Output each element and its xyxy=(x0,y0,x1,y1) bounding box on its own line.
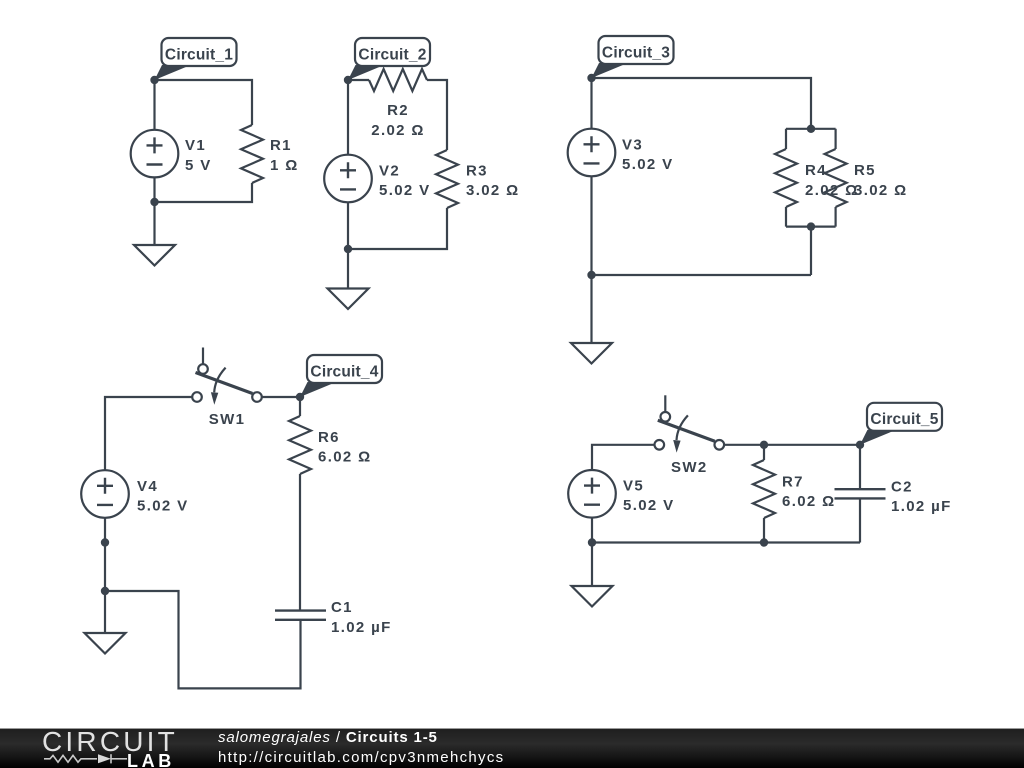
node dot circuit 4 top xyxy=(296,393,304,401)
wire: circuit 1 top (node to R1 top) xyxy=(155,80,253,125)
svg-text:R1: R1 xyxy=(270,137,292,154)
svg-text:R4: R4 xyxy=(805,162,827,179)
wire: circuit 3 top (node to parallel pair) xyxy=(592,78,812,129)
CircuitLab logo wordmark CIRCUIT xyxy=(42,726,178,758)
ground symbol (circuit 1) xyxy=(134,245,175,266)
ground symbol (circuit 3) xyxy=(571,343,612,364)
svg-text:SW1: SW1 xyxy=(209,411,246,428)
svg-text:R2: R2 xyxy=(387,102,409,119)
node flag Circuit_5 xyxy=(860,403,942,445)
wire: C1 bottom loop back to V4 xyxy=(105,591,301,688)
wire: switch right to node xyxy=(262,396,300,398)
wire: R7 leads xyxy=(763,445,765,543)
ground symbol (circuit 5) xyxy=(572,586,613,607)
svg-text:5.02 V: 5.02 V xyxy=(622,156,673,173)
svg-text:C1: C1 xyxy=(331,599,353,616)
wire: circuit 1 bottom (R1 bottom to node) xyxy=(155,183,253,202)
node flag Circuit_2 xyxy=(348,38,430,80)
switch SW1 left terminal xyxy=(192,392,202,402)
wire: circuit 2 ground lead xyxy=(347,249,349,289)
svg-text:2.02 Ω: 2.02 Ω xyxy=(805,182,859,199)
node dot C2 top xyxy=(856,441,864,449)
resistor R2 xyxy=(369,69,427,91)
svg-text:Circuit_2: Circuit_2 xyxy=(358,46,426,63)
switch SW1 lever arm xyxy=(196,373,253,394)
svg-text:5.02 V: 5.02 V xyxy=(137,497,188,514)
footer title line xyxy=(218,729,438,746)
svg-text:R7: R7 xyxy=(782,473,804,490)
svg-text:1 Ω: 1 Ω xyxy=(270,157,299,174)
node dot circuit 3 top left xyxy=(587,74,595,82)
svg-text:Circuit_3: Circuit_3 xyxy=(602,44,670,61)
voltage source V5 body xyxy=(568,470,616,518)
svg-text:5.02 V: 5.02 V xyxy=(623,497,674,514)
node dot R7 bottom xyxy=(760,538,768,546)
svg-text:1.02 µF: 1.02 µF xyxy=(891,498,952,515)
wire: V4 top to switch left xyxy=(105,397,192,471)
svg-text:2.02 Ω: 2.02 Ω xyxy=(371,122,425,139)
svg-text:6.02 Ω: 6.02 Ω xyxy=(782,493,836,510)
svg-text:V1: V1 xyxy=(185,137,206,154)
wire: V4 bottom lead xyxy=(104,518,106,592)
voltage source V1 body xyxy=(131,130,179,178)
node dot parallel bottom xyxy=(807,222,815,230)
node dot circuit 1 bottom xyxy=(150,198,158,206)
node dot circuit 2 bottom xyxy=(344,245,352,253)
wire: circuit 5 ground lead xyxy=(591,543,593,587)
switch SW2 top throw stub xyxy=(664,395,666,412)
voltage source V3 body xyxy=(568,129,616,177)
wire: R6 bottom to C1 top xyxy=(299,474,301,610)
resistor R1 xyxy=(241,125,263,183)
wire: R4 leads xyxy=(785,129,787,227)
wire: V3 leads xyxy=(590,78,592,275)
resistor R7 xyxy=(753,460,775,518)
wire: parallel top bar xyxy=(786,128,836,130)
svg-text:R6: R6 xyxy=(318,429,340,446)
svg-text:Circuit_4: Circuit_4 xyxy=(310,363,378,380)
wire: V5 bottom lead xyxy=(591,518,593,543)
svg-text:1.02 µF: 1.02 µF xyxy=(331,619,392,636)
wire: V2 leads xyxy=(347,80,349,249)
node dot circuit 3 bottom left xyxy=(587,271,595,279)
footer url line xyxy=(218,749,504,766)
CircuitLab logo schematic squiggle (resistor + diode) xyxy=(0,728,220,768)
switch SW1 top terminal xyxy=(198,364,208,374)
wire: circuit 3 ground lead xyxy=(590,275,592,343)
svg-text:C2: C2 xyxy=(891,479,913,496)
wire: circuit 2 top left (node to R2) xyxy=(348,79,369,81)
switch SW2 lever arm xyxy=(658,420,715,441)
resistor R6 xyxy=(289,416,311,474)
voltage source V2 body xyxy=(324,155,372,203)
node dot parallel top xyxy=(807,125,815,133)
wire: switch right to C2 node xyxy=(724,444,860,446)
svg-text:Circuit_5: Circuit_5 xyxy=(870,411,938,428)
wire: circuit 5 bottom xyxy=(592,541,860,543)
switch SW1 right terminal xyxy=(252,392,262,402)
switch SW1 top throw stub xyxy=(202,348,204,365)
node flag Circuit_3 xyxy=(592,36,674,78)
svg-text:V5: V5 xyxy=(623,478,644,495)
switch SW2 top terminal xyxy=(661,412,671,422)
resistor R3 xyxy=(436,150,458,208)
svg-text:Circuit_1: Circuit_1 xyxy=(165,46,233,63)
capacitor C1 xyxy=(275,611,326,620)
svg-text:6.02 Ω: 6.02 Ω xyxy=(318,449,372,466)
node dot circuit 2 top xyxy=(344,76,352,84)
wire: parallel bottom bar xyxy=(786,226,836,228)
ground symbol (circuit 4) xyxy=(85,633,126,654)
voltage source V4 body xyxy=(81,470,129,518)
svg-text:5 V: 5 V xyxy=(185,157,212,174)
switch SW2 left terminal xyxy=(655,440,665,450)
wire: V1 leads xyxy=(153,80,155,202)
svg-text:V2: V2 xyxy=(379,162,400,179)
svg-text:R5: R5 xyxy=(854,162,876,179)
wire: circuit 2 top right (R2 to R3 top) xyxy=(427,80,447,150)
svg-text:5.02 V: 5.02 V xyxy=(379,182,430,199)
wire: R5 leads xyxy=(834,129,836,227)
capacitor C2 xyxy=(835,489,886,498)
wire: V5 top to switch left xyxy=(592,445,655,470)
footer bar xyxy=(0,728,1024,768)
svg-text:SW2: SW2 xyxy=(671,459,708,476)
svg-text:3.02 Ω: 3.02 Ω xyxy=(466,182,520,199)
wire: circuit 4 ground lead xyxy=(104,591,106,633)
wire: circuit 3 bottom (pair to node) xyxy=(592,227,812,275)
node dot circuit 1 top xyxy=(150,76,158,84)
resistor R4 xyxy=(775,149,797,207)
wire: node to R6 xyxy=(299,397,301,416)
switch SW2 right terminal xyxy=(715,440,725,450)
node flag Circuit_1 xyxy=(155,38,237,80)
wire: circuit 1 ground lead xyxy=(153,202,155,245)
resistor R5 xyxy=(825,149,847,207)
svg-text:3.02 Ω: 3.02 Ω xyxy=(854,182,908,199)
svg-text:V3: V3 xyxy=(622,137,643,154)
node dot R7 top xyxy=(760,441,768,449)
svg-text:V4: V4 xyxy=(137,478,158,495)
wire: circuit 2 bottom (R3 bottom to node) xyxy=(348,208,447,249)
wire: C2 leads xyxy=(859,445,861,543)
ground symbol (circuit 2) xyxy=(328,289,369,310)
switch SW2 actuation arrow xyxy=(677,415,688,440)
node dot circuit 5 ground tee xyxy=(588,538,596,546)
node dot circuit 4 ground tee xyxy=(101,587,109,595)
switch SW1 actuation arrow xyxy=(214,368,225,393)
node dot V4 lower lead xyxy=(101,538,109,546)
node flag Circuit_4 xyxy=(300,355,382,397)
svg-text:R3: R3 xyxy=(466,162,488,179)
